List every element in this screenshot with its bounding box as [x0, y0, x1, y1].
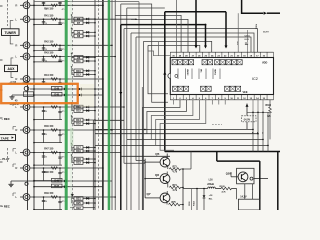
capacitor pair row y5.3: [43, 2, 45, 6]
arrow up into IC: [163, 72, 166, 75]
resistor R75: [166, 202, 168, 205]
diode label box D16: [74, 122, 83, 126]
wire stubs D14 D16: [72, 119, 75, 121]
diode label box D13: [74, 105, 83, 109]
arrow down on bus x120.8: [119, 92, 122, 95]
input jack L y152.5: [20, 152, 24, 154]
svg-text:14.2V: 14.2V: [240, 196, 247, 199]
wire return row y152.5: [34, 164, 62, 166]
wire return row y19.2: [34, 24, 62, 26]
svg-text:471: 471: [62, 48, 65, 51]
capacitor pair row y79: [43, 79, 45, 84]
svg-text:– REC: – REC: [2, 117, 10, 121]
IC2 notch: [168, 74, 170, 79]
wire below callout: [246, 122, 248, 130]
wire return row y168: [34, 180, 62, 182]
wire thick relay riser: [216, 152, 218, 162]
wire rail y188.5: [183, 188, 208, 190]
svg-text:D48: D48: [54, 87, 59, 90]
relay contact circle: [250, 177, 253, 180]
IC pin number row top: [170, 51, 273, 53]
svg-text:– PLAY: – PLAY: [0, 157, 10, 161]
wire thick right edge drop: [277, 152, 279, 211]
highlighter green line left: [65, 0, 68, 210]
resistor R41: [51, 18, 57, 20]
arrow right top feed: [264, 12, 267, 15]
board edge dashed line lower: [7, 148, 9, 162]
svg-text:D22: D22: [76, 207, 81, 210]
junction dots row y45.3: [33, 45, 35, 47]
diode D7: [83, 22, 95, 24]
svg-text:R49 150: R49 150: [44, 192, 54, 195]
diode D5: [83, 18, 95, 20]
wire jack row y152.5: [30, 152, 121, 154]
svg-text:R105: R105: [220, 186, 226, 188]
svg-text:471: 471: [62, 59, 65, 62]
svg-text:10: 10: [45, 111, 47, 113]
wire thick bottom run: [165, 151, 280, 153]
board edge dashed line top: [7, 0, 9, 26]
wire vertical x126.8: [126, 8, 128, 210]
svg-text:R41 150: R41 150: [44, 14, 54, 17]
wire return row y130: [34, 142, 62, 144]
svg-text:D46: D46: [54, 179, 59, 182]
svg-text:R47 150: R47 150: [44, 148, 54, 151]
switch element top: [208, 60, 213, 65]
input jack L y107: [20, 106, 24, 108]
svg-text:R43 150: R43 150: [44, 52, 54, 55]
wire D47 row: [34, 186, 103, 188]
junction dots row y19.2: [33, 18, 35, 20]
wire jack row y197: [30, 196, 115, 198]
diode D46 label box: [52, 178, 63, 182]
resistor R104 drop: [196, 189, 198, 211]
svg-text:D49: D49: [54, 93, 59, 96]
diode D11: [83, 60, 95, 62]
wire fan pin3: [147, 100, 187, 134]
bracket tape group: [13, 103, 16, 196]
voltage callout -14.0V: [242, 116, 257, 122]
junction dots row y197: [33, 196, 35, 198]
left edge specks: [0, 5, 3, 7]
IC IC2 body: [170, 58, 273, 95]
svg-text:D19: D19: [76, 150, 81, 153]
diode label box D6: [74, 31, 83, 35]
wire thick relay top: [217, 160, 260, 162]
junction dots D rows: [33, 180, 35, 182]
wire return row y107: [34, 119, 62, 121]
paper background: [0, 0, 280, 210]
diode D14: [83, 119, 95, 121]
diode label box D23: [74, 161, 83, 165]
component box on bus: [24, 92, 34, 97]
wire return row y45.3: [34, 50, 62, 52]
wire return row y79: [34, 83, 62, 85]
switch element bottom: [173, 86, 178, 91]
svg-text:10: 10: [45, 60, 47, 62]
wire row y120.3: [95, 119, 124, 121]
wire frame right cluster: [237, 13, 239, 52]
wire D46 row: [11, 180, 112, 182]
resistor R46: [51, 129, 57, 131]
junction dots row y152.5: [33, 152, 35, 154]
capacitor pair row y107: [43, 107, 45, 120]
resistor R45: [51, 106, 57, 108]
diode D47 label box: [52, 184, 63, 188]
wire thick feed y11.7: [165, 12, 226, 46]
diode label box D12: [74, 73, 83, 77]
wire stubs D6 D8: [72, 31, 75, 33]
wire right drops to bottom rail: [252, 112, 254, 151]
diode label box D19: [74, 149, 83, 153]
wire vertical bus E: [111, 0, 113, 210]
diode D25: [83, 202, 95, 204]
wire Q5 base: [145, 161, 160, 163]
svg-text:220uH: 220uH: [207, 184, 214, 186]
resistor R43: [51, 55, 57, 57]
junction dots row y130: [33, 129, 35, 131]
diode D16: [83, 123, 95, 125]
diode D21: [83, 197, 95, 199]
wire row y133.7: [95, 133, 258, 135]
wire row y112.3 right: [247, 111, 270, 113]
svg-text:D47: D47: [54, 185, 59, 188]
wire stubs D10 D12: [72, 70, 75, 72]
wire thick pin drop x196: [195, 0, 197, 46]
diode label box D8: [74, 34, 83, 38]
arrow down on dashed net: [71, 194, 73, 196]
svg-text:D23: D23: [76, 162, 81, 165]
svg-text:TUNER: TUNER: [5, 31, 17, 35]
wire jack row y56.5: [30, 56, 115, 58]
diode label box D22 bottom: [74, 206, 83, 209]
svg-text:471: 471: [62, 22, 65, 25]
svg-text:R75: R75: [172, 202, 177, 204]
junction dots row y56.5: [33, 56, 35, 58]
IC pin number row bottom: [170, 99, 273, 101]
wire dash-dot vertical net: [72, 0, 74, 210]
wire jack row y130: [30, 129, 112, 131]
wire D49 row: [34, 94, 103, 96]
diode D46: [64, 180, 67, 183]
capacitor pair row y168: [43, 168, 45, 181]
svg-text:10: 10: [45, 201, 47, 203]
transistor Q5: [160, 157, 170, 167]
wire row y83.5 electrolytics: [8, 83, 34, 85]
relay box: [237, 168, 254, 184]
svg-text:R46 150: R46 150: [44, 125, 54, 128]
diode D17: [83, 146, 95, 148]
wire corner y15.4: [115, 15, 181, 52]
wire fan pin6: [160, 100, 206, 151]
svg-text:D16: D16: [76, 123, 81, 126]
wire corner y19.4: [131, 19, 188, 52]
svg-text:VDD: VDD: [262, 62, 267, 65]
wire pin drops below IC: [173, 100, 175, 105]
switch element bottom: [184, 86, 189, 91]
wire thick corner x120.8: [121, 25, 206, 210]
svg-text:D21: D21: [76, 198, 81, 201]
diode label box D21: [74, 197, 83, 201]
resistor R105: [221, 187, 232, 190]
diode label box D14: [74, 118, 83, 122]
wire Q6 collector: [166, 172, 168, 175]
capacitor pair row y56.5: [43, 57, 45, 62]
svg-text:471: 471: [62, 171, 65, 174]
svg-text:10: 10: [45, 23, 47, 25]
junction dots row y79: [33, 78, 35, 80]
IC internal circle: [175, 75, 178, 78]
svg-text:– REC: – REC: [2, 205, 10, 209]
wire fan pin5: [156, 100, 200, 146]
wire corner y4: [121, 4, 168, 102]
wire jack row y168: [30, 167, 103, 169]
diode D6: [83, 31, 95, 33]
diode D15: [83, 110, 95, 112]
wire Q7 collector: [166, 191, 168, 194]
input jack L y56.5: [20, 56, 24, 58]
wire corner y37: [136, 37, 251, 161]
svg-text:Q7: Q7: [147, 192, 151, 196]
highlighter pale yellow wash: [80, 84, 94, 107]
svg-text:D11: D11: [76, 60, 81, 63]
wire drop x191.5: [191, 189, 193, 211]
diode drop x204: [203, 189, 205, 196]
wire row y139.4: [127, 138, 263, 140]
ground symbol in highlight box: [9, 95, 14, 99]
switch element bottom: [230, 86, 235, 91]
switch element top: [178, 60, 183, 65]
svg-text:471: 471: [62, 133, 65, 136]
diode D12: [83, 74, 95, 76]
annotation orange box: [1, 84, 78, 103]
diode label box D11: [74, 59, 83, 63]
wire return row y197: [34, 209, 62, 211]
label TAPE: [0, 135, 16, 141]
transistor Q7: [160, 193, 170, 203]
diode D48: [64, 88, 67, 91]
switch element top: [202, 60, 207, 65]
diode D9: [83, 56, 95, 58]
svg-text:+C8: +C8: [209, 195, 213, 197]
label TUNER: [2, 29, 20, 36]
switch element bottom: [178, 86, 183, 91]
transistor Q6: [160, 174, 170, 184]
diode D49: [64, 94, 67, 97]
svg-text:IC2: IC2: [252, 77, 258, 81]
resistor R47: [51, 151, 57, 153]
connector circle lower left: [25, 182, 28, 185]
wire fan pin4: [151, 100, 193, 140]
svg-text:Q5: Q5: [155, 152, 159, 156]
switch element top: [232, 60, 237, 65]
svg-text:D15: D15: [76, 110, 81, 113]
capacitor pair row y197: [43, 197, 45, 210]
switch element top: [189, 60, 194, 65]
svg-text:471: 471: [62, 155, 65, 158]
input jack R y45.3: [20, 44, 24, 46]
input jack L y19.2: [20, 18, 24, 20]
svg-text:471: 471: [62, 200, 65, 203]
svg-text:471: 471: [62, 110, 65, 113]
diode label box D25: [74, 201, 83, 205]
wire base feed hook from x124: [124, 162, 145, 164]
wire jack row y19.2: [30, 18, 136, 20]
wire drop x236.6: [236, 189, 238, 200]
diode label box D10: [74, 69, 83, 73]
wire base feed hook from x136: [136, 160, 145, 162]
switch element top: [226, 60, 231, 65]
label AUX: [5, 65, 18, 71]
wire small right cluster: [247, 30, 249, 42]
wire return row y56.5: [34, 61, 62, 63]
resistor R74: [167, 183, 169, 188]
diode label box D7: [74, 21, 83, 25]
wire emitter bus vertical: [182, 169, 184, 210]
wire top edge run: [34, 2, 139, 210]
wire vertical x176.6: [176, 0, 178, 52]
diode label box D9: [74, 56, 83, 60]
resistor R48: [51, 167, 57, 169]
wire thick relay right: [259, 161, 261, 210]
highlighter pale wash: [70, 128, 73, 146]
svg-text:10: 10: [45, 134, 47, 136]
input jack R y130: [20, 129, 24, 131]
highlighter pale green margin: [70, 0, 73, 210]
diode label box D15: [74, 109, 83, 113]
junction dots row y107: [33, 106, 35, 108]
wire relay drops: [244, 184, 246, 199]
junction dots row y168: [33, 167, 35, 169]
wire relay out: [254, 178, 268, 180]
diode D49 label box: [52, 92, 63, 96]
diode D49 second: [79, 94, 82, 97]
svg-text:VEE: VEE: [243, 91, 248, 94]
svg-text:TAPE2: TAPE2: [214, 69, 217, 75]
highlighter green line right: [108, 0, 111, 210]
switch element top: [237, 60, 242, 65]
svg-text:15.7V: 15.7V: [263, 32, 269, 34]
wire stub D22: [70, 207, 74, 209]
wire row y129.4: [95, 128, 253, 130]
bracket aux: [11, 58, 13, 78]
IC internal column marks: [177, 69, 179, 80]
svg-text:R42 150: R42 150: [44, 41, 54, 44]
wire stubs D13 D15: [72, 106, 75, 108]
wire stubs D18 D23: [72, 158, 75, 160]
switch element bottom: [225, 86, 230, 91]
junction dots row y5.3: [33, 5, 35, 7]
wire vertical bus B: [33, 0, 35, 210]
diode D13: [83, 106, 95, 108]
wire Q5 collector: [166, 154, 168, 159]
wire vertical x142.3: [141, 87, 143, 210]
diode D18: [83, 158, 95, 160]
wire jack row y107: [30, 106, 124, 108]
diode label box D17: [74, 146, 83, 150]
resistor R73: [167, 166, 169, 169]
arrow down x226: [225, 46, 228, 49]
connector box bottom right: [238, 199, 259, 210]
svg-text:-14.0V: -14.0V: [243, 118, 250, 121]
switch element bottom: [201, 86, 206, 91]
svg-text:D25: D25: [76, 202, 81, 205]
wire jack row y5.3: [30, 4, 103, 6]
wire corner y8: [127, 7, 165, 9]
svg-text:AUX: AUX: [8, 67, 16, 71]
svg-text:4.7k: 4.7k: [173, 171, 178, 174]
diode D10: [83, 70, 95, 72]
ground symbol lower left: [8, 181, 13, 187]
wire vertical bus C: [94, 0, 96, 210]
switch element top: [220, 60, 225, 65]
wire thick feed right corner: [242, 0, 264, 13]
svg-text:10: 10: [45, 156, 47, 158]
wire staircase left of IC: [148, 45, 170, 55]
wire fan pin2: [143, 100, 181, 210]
resistor R44: [51, 78, 57, 80]
resistor R49: [51, 196, 57, 198]
wire vertical short x93.3: [92, 120, 94, 210]
capacitor pair row y152.5: [43, 153, 45, 166]
wire jack row y79: [30, 78, 103, 80]
diode label box D5: [74, 17, 83, 21]
wire jack row y45.3: [30, 44, 112, 46]
diode D23: [83, 162, 95, 164]
wire vertical x158.6 stub: [158, 42, 160, 56]
svg-text:R74: R74: [173, 184, 178, 187]
diode D47: [64, 185, 67, 188]
wire stubs D5 D7: [72, 18, 75, 20]
wire row y145.4: [95, 144, 268, 146]
svg-text:D12: D12: [76, 74, 81, 77]
wire thick pin drop x205.5: [205, 25, 207, 46]
svg-text:Q6: Q6: [155, 173, 159, 177]
wire stubs D17 D19: [72, 146, 75, 148]
callout pointer dashes: [212, 124, 222, 126]
wire vertical x120.8 upper: [120, 4, 122, 25]
input jack R y5.3: [20, 4, 24, 6]
junction dots highlight rows: [33, 88, 35, 90]
svg-text:R310: R310: [266, 105, 272, 107]
diode D48 second: [79, 88, 82, 91]
wire stubs D21 D25: [72, 197, 75, 199]
diode label box D18: [74, 157, 83, 161]
diode D19: [83, 150, 95, 152]
resistor R42: [51, 44, 57, 46]
wire relay base feed: [231, 176, 238, 178]
svg-text:10: 10: [45, 172, 47, 174]
svg-text:4.7k: 4.7k: [173, 189, 178, 192]
svg-text:10: 10: [45, 9, 47, 11]
wire corner y45.4: [148, 45, 200, 93]
input jack R y168: [20, 167, 24, 169]
wire vertical bus F: [114, 0, 116, 210]
wire Q7 base: [145, 197, 160, 199]
resistor R40: [51, 4, 57, 6]
switch element top: [215, 60, 220, 65]
switch element top: [183, 60, 188, 65]
wire D48 row: [30, 88, 103, 90]
switch element bottom: [236, 86, 241, 91]
svg-text:VAREC: VAREC: [186, 69, 189, 76]
wire corner y41.4: [144, 41, 212, 210]
wire vertical bus A: [27, 0, 29, 210]
wire stubs D9 D11: [72, 56, 75, 58]
transistor Q59: [238, 172, 248, 182]
svg-text:TAPE: TAPE: [1, 136, 9, 140]
wire stubs from IC to y112: [252, 100, 254, 112]
